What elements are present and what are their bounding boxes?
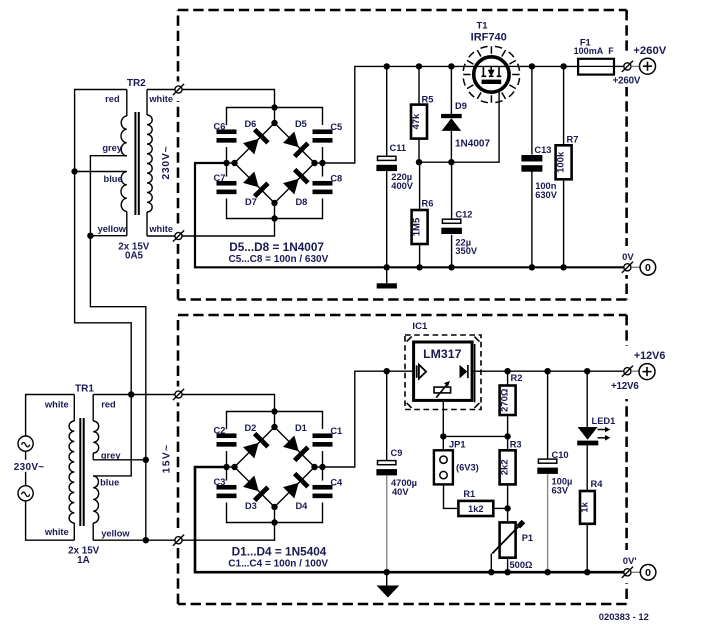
AC mains source xyxy=(18,395,74,541)
wire white top to bridge1 xyxy=(147,89,175,91)
svg-text:yellow: yellow xyxy=(101,529,130,539)
svg-text:C5: C5 xyxy=(330,122,342,132)
capacitor C9 4700µ xyxy=(376,371,397,572)
transistor T1 IRF740 xyxy=(463,46,520,103)
svg-text:R3: R3 xyxy=(510,440,522,450)
LV module dashed box xyxy=(178,315,627,604)
svg-text:1A: 1A xyxy=(77,555,90,566)
svg-text:D8: D8 xyxy=(295,197,307,207)
capacitor C11 xyxy=(376,66,397,267)
wire gate node xyxy=(419,84,499,162)
svg-text:C10: C10 xyxy=(552,450,569,460)
jumper JP1 xyxy=(434,436,459,508)
wire white bottom to bridge1 xyxy=(147,235,175,237)
svg-text:C3: C3 xyxy=(214,477,226,487)
svg-text:R5: R5 xyxy=(422,94,434,104)
wire IC1 adj xyxy=(443,400,507,436)
svg-text:red: red xyxy=(105,94,120,104)
terminal white bottom xyxy=(173,230,184,241)
svg-text:white: white xyxy=(148,224,173,234)
svg-text:020383 - 12: 020383 - 12 xyxy=(599,611,649,622)
svg-text:15V~: 15V~ xyxy=(161,444,173,474)
svg-text:IRF740: IRF740 xyxy=(471,31,507,43)
svg-text:+12V6: +12V6 xyxy=(634,350,666,362)
wire grey tap xyxy=(93,459,146,461)
terminal +12V6 xyxy=(622,364,655,380)
wire 15V bottom to bridge2 xyxy=(182,523,274,541)
capacitor C2 xyxy=(217,429,237,451)
fuse F1 xyxy=(578,59,624,75)
junction yellow/grey xyxy=(143,537,149,543)
svg-text:D3: D3 xyxy=(245,501,257,511)
capacitor C10 100µ xyxy=(537,371,558,572)
junction blue bus xyxy=(71,168,77,174)
svg-text:+12V6: +12V6 xyxy=(611,381,639,392)
svg-text:grey: grey xyxy=(102,143,122,153)
capacitor C7 xyxy=(217,177,237,199)
HV module dashed box xyxy=(178,10,627,300)
svg-text:100k: 100k xyxy=(556,151,567,173)
svg-text:400V: 400V xyxy=(391,181,414,191)
capacitor C8 xyxy=(313,177,333,199)
ground (LV 0V) xyxy=(377,572,400,597)
svg-text:+260V: +260V xyxy=(613,76,641,87)
svg-text:63V: 63V xyxy=(552,486,569,496)
svg-text:C6: C6 xyxy=(214,122,226,132)
svg-text:JP1: JP1 xyxy=(449,440,466,450)
svg-text:C7: C7 xyxy=(214,173,226,183)
svg-text:C9: C9 xyxy=(391,448,403,458)
bridge junctions xyxy=(223,104,325,221)
svg-text:C12: C12 xyxy=(455,209,472,219)
svg-text:R4: R4 xyxy=(591,479,604,489)
svg-text:+260V: +260V xyxy=(633,45,666,57)
diode D1 xyxy=(282,435,310,463)
svg-text:100mA F: 100mA F xyxy=(574,46,615,56)
svg-text:C13: C13 xyxy=(534,145,551,155)
svg-text:0V: 0V xyxy=(622,252,634,263)
svg-text:blue: blue xyxy=(104,174,123,184)
capacitor C5 xyxy=(313,125,333,147)
resistor R5 47k xyxy=(411,66,427,162)
junction yellow bus xyxy=(87,233,93,239)
capacitor C1 xyxy=(313,429,333,451)
svg-text:TR1: TR1 xyxy=(75,384,94,395)
capacitor C3 xyxy=(217,481,237,503)
svg-text:yellow: yellow xyxy=(98,224,127,234)
terminal 0V' xyxy=(622,565,656,581)
svg-text:C1: C1 xyxy=(330,426,342,436)
svg-text:D5...D8 = 1N4007: D5...D8 = 1N4007 xyxy=(229,240,324,254)
terminal 0V xyxy=(622,260,656,276)
svg-text:D2: D2 xyxy=(244,423,256,433)
LED1 xyxy=(577,371,610,491)
svg-text:0V': 0V' xyxy=(623,556,637,567)
bridge frame (snubber square) xyxy=(227,108,323,219)
wire bridge2 DC- to 0V rail xyxy=(195,467,624,572)
diode D6 xyxy=(242,128,270,156)
wire blue tap xyxy=(75,171,127,173)
wire grey to yellow tie xyxy=(145,460,147,540)
bridge frame (snubber square) xyxy=(227,412,323,523)
resistor R2 270Ω xyxy=(500,371,516,436)
wire bridge2 DC+ to rail xyxy=(323,371,414,467)
svg-text:white: white xyxy=(44,527,69,537)
capacitor C6 xyxy=(217,125,237,147)
resistor R4 1k xyxy=(579,491,594,572)
svg-text:D6: D6 xyxy=(244,119,256,129)
wire bridge1 DC+ to rail xyxy=(323,66,579,163)
svg-text:1k2: 1k2 xyxy=(468,504,484,514)
svg-text:white: white xyxy=(44,400,69,410)
resistor R7 100k xyxy=(556,66,572,267)
wire 15V top to bridge2 xyxy=(182,395,274,412)
svg-text:D7: D7 xyxy=(245,197,257,207)
svg-text:D5: D5 xyxy=(295,119,307,129)
svg-text:(6V3): (6V3) xyxy=(456,462,479,472)
svg-text:1k: 1k xyxy=(579,501,590,512)
capacitor C4 xyxy=(313,481,333,503)
wire grey+yellow bus TR2-TR1 xyxy=(90,156,145,460)
svg-text:red: red xyxy=(101,400,116,410)
svg-text:630V: 630V xyxy=(535,190,558,200)
bridge junctions xyxy=(223,408,325,525)
svg-text:350V: 350V xyxy=(455,246,478,256)
svg-text:47k: 47k xyxy=(411,113,422,130)
wire blue tap (tied to red) xyxy=(93,395,131,476)
svg-text:R2: R2 xyxy=(511,373,523,383)
svg-text:T1: T1 xyxy=(476,20,488,31)
svg-text:TR2: TR2 xyxy=(127,78,146,89)
svg-text:230V~: 230V~ xyxy=(14,462,45,473)
capacitor C12 22µ xyxy=(441,162,462,267)
svg-text:D4: D4 xyxy=(295,501,308,511)
junction grey bus xyxy=(143,457,149,463)
terminal 15V bottom xyxy=(173,535,184,546)
svg-text:C4: C4 xyxy=(330,478,343,488)
potentiometer P1 500Ω xyxy=(491,522,523,573)
svg-text:230V~: 230V~ xyxy=(161,146,172,180)
junction red/blue xyxy=(128,391,134,397)
svg-text:2k2: 2k2 xyxy=(500,459,511,475)
diode D4 xyxy=(282,472,310,500)
diode D5 xyxy=(282,131,310,159)
wire red+blue bus TR2-TR1 xyxy=(75,90,132,395)
wire yellow tap xyxy=(90,235,126,237)
svg-text:R1: R1 xyxy=(463,489,475,499)
svg-text:LED1: LED1 xyxy=(592,416,616,426)
diode D9 1N4007 xyxy=(441,66,462,162)
svg-text:R6: R6 xyxy=(422,199,434,209)
svg-text:R7: R7 xyxy=(567,134,579,144)
svg-text:C11: C11 xyxy=(390,143,407,153)
svg-text:C5...C8 = 100n / 630V: C5...C8 = 100n / 630V xyxy=(229,254,329,265)
diode D8 xyxy=(282,168,310,196)
capacitor C13 100n xyxy=(521,66,542,267)
svg-text:white: white xyxy=(148,94,173,104)
diode D2 xyxy=(242,432,270,460)
svg-text:D9: D9 xyxy=(455,101,467,111)
resistor R3 2k2 xyxy=(500,436,516,522)
svg-text:C2: C2 xyxy=(214,426,226,436)
resistor R6 1M5 xyxy=(412,162,428,267)
transformer TR1 xyxy=(69,395,99,541)
svg-text:270Ω: 270Ω xyxy=(500,388,511,412)
transformer TR2 xyxy=(121,90,152,237)
wire red tap to terminal xyxy=(93,394,174,396)
svg-text:40V: 40V xyxy=(392,487,409,497)
svg-text:0A5: 0A5 xyxy=(125,251,144,262)
svg-text:blue: blue xyxy=(100,478,119,488)
wire bridge1 DC- to 0V rail xyxy=(195,163,624,267)
svg-text:C1...C4 = 100n / 100V: C1...C4 = 100n / 100V xyxy=(228,558,328,569)
svg-text:C8: C8 xyxy=(330,174,342,184)
diode D3 xyxy=(242,475,270,503)
svg-text:LM317: LM317 xyxy=(423,347,461,361)
terminal white top xyxy=(173,84,184,95)
resistor R1 1k2 xyxy=(458,501,507,516)
diode D7 xyxy=(242,171,270,199)
wire IC1 out to +12V rail xyxy=(472,370,624,372)
svg-text:1M5: 1M5 xyxy=(412,217,423,236)
terminal 15V top xyxy=(173,389,184,400)
svg-text:P1: P1 xyxy=(522,533,533,543)
wire yellow tap to terminal xyxy=(93,539,174,541)
voltage regulator IC1 LM317 xyxy=(405,335,481,410)
svg-text:D1: D1 xyxy=(295,423,307,433)
svg-text:500Ω: 500Ω xyxy=(510,560,534,570)
ground (HV 0V) xyxy=(377,267,397,288)
svg-text:1N4007: 1N4007 xyxy=(455,139,490,150)
terminal +260V xyxy=(622,58,656,74)
svg-text:D1...D4 = 1N5404: D1...D4 = 1N5404 xyxy=(232,544,327,558)
svg-text:IC1: IC1 xyxy=(412,321,428,332)
